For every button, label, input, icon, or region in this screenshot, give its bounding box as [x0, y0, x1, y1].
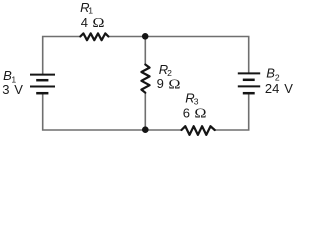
svg-text:V: V: [284, 81, 293, 96]
battery B1: [30, 75, 55, 94]
wire: left lower segment: [43, 93, 146, 130]
wire: top right segment: [145, 37, 249, 74]
svg-text:9: 9: [157, 76, 164, 91]
svg-text:R1: R1: [80, 0, 93, 16]
resistor R2: [141, 65, 149, 93]
svg-text:3: 3: [2, 82, 9, 97]
resistor R3: [182, 126, 215, 135]
svg-text:R3: R3: [185, 90, 198, 106]
wire: middle branch lower: [144, 93, 146, 130]
svg-text:4: 4: [81, 15, 88, 30]
svg-text:Ω: Ω: [168, 77, 180, 91]
svg-text:Ω: Ω: [92, 16, 104, 30]
junction node bottom: [142, 126, 149, 133]
wire: bottom right segment: [215, 93, 249, 130]
svg-text:24: 24: [265, 81, 279, 96]
wire: middle branch upper: [144, 37, 146, 65]
junction node top: [142, 33, 149, 40]
wire: top middle segment: [108, 36, 145, 38]
svg-text:Ω: Ω: [194, 107, 206, 121]
wire: top left segment: [43, 37, 81, 75]
wire: bottom middle segment: [145, 129, 181, 131]
battery B2: [238, 73, 260, 93]
svg-text:6: 6: [183, 105, 190, 120]
resistor R1: [80, 33, 108, 40]
svg-text:V: V: [14, 82, 23, 97]
